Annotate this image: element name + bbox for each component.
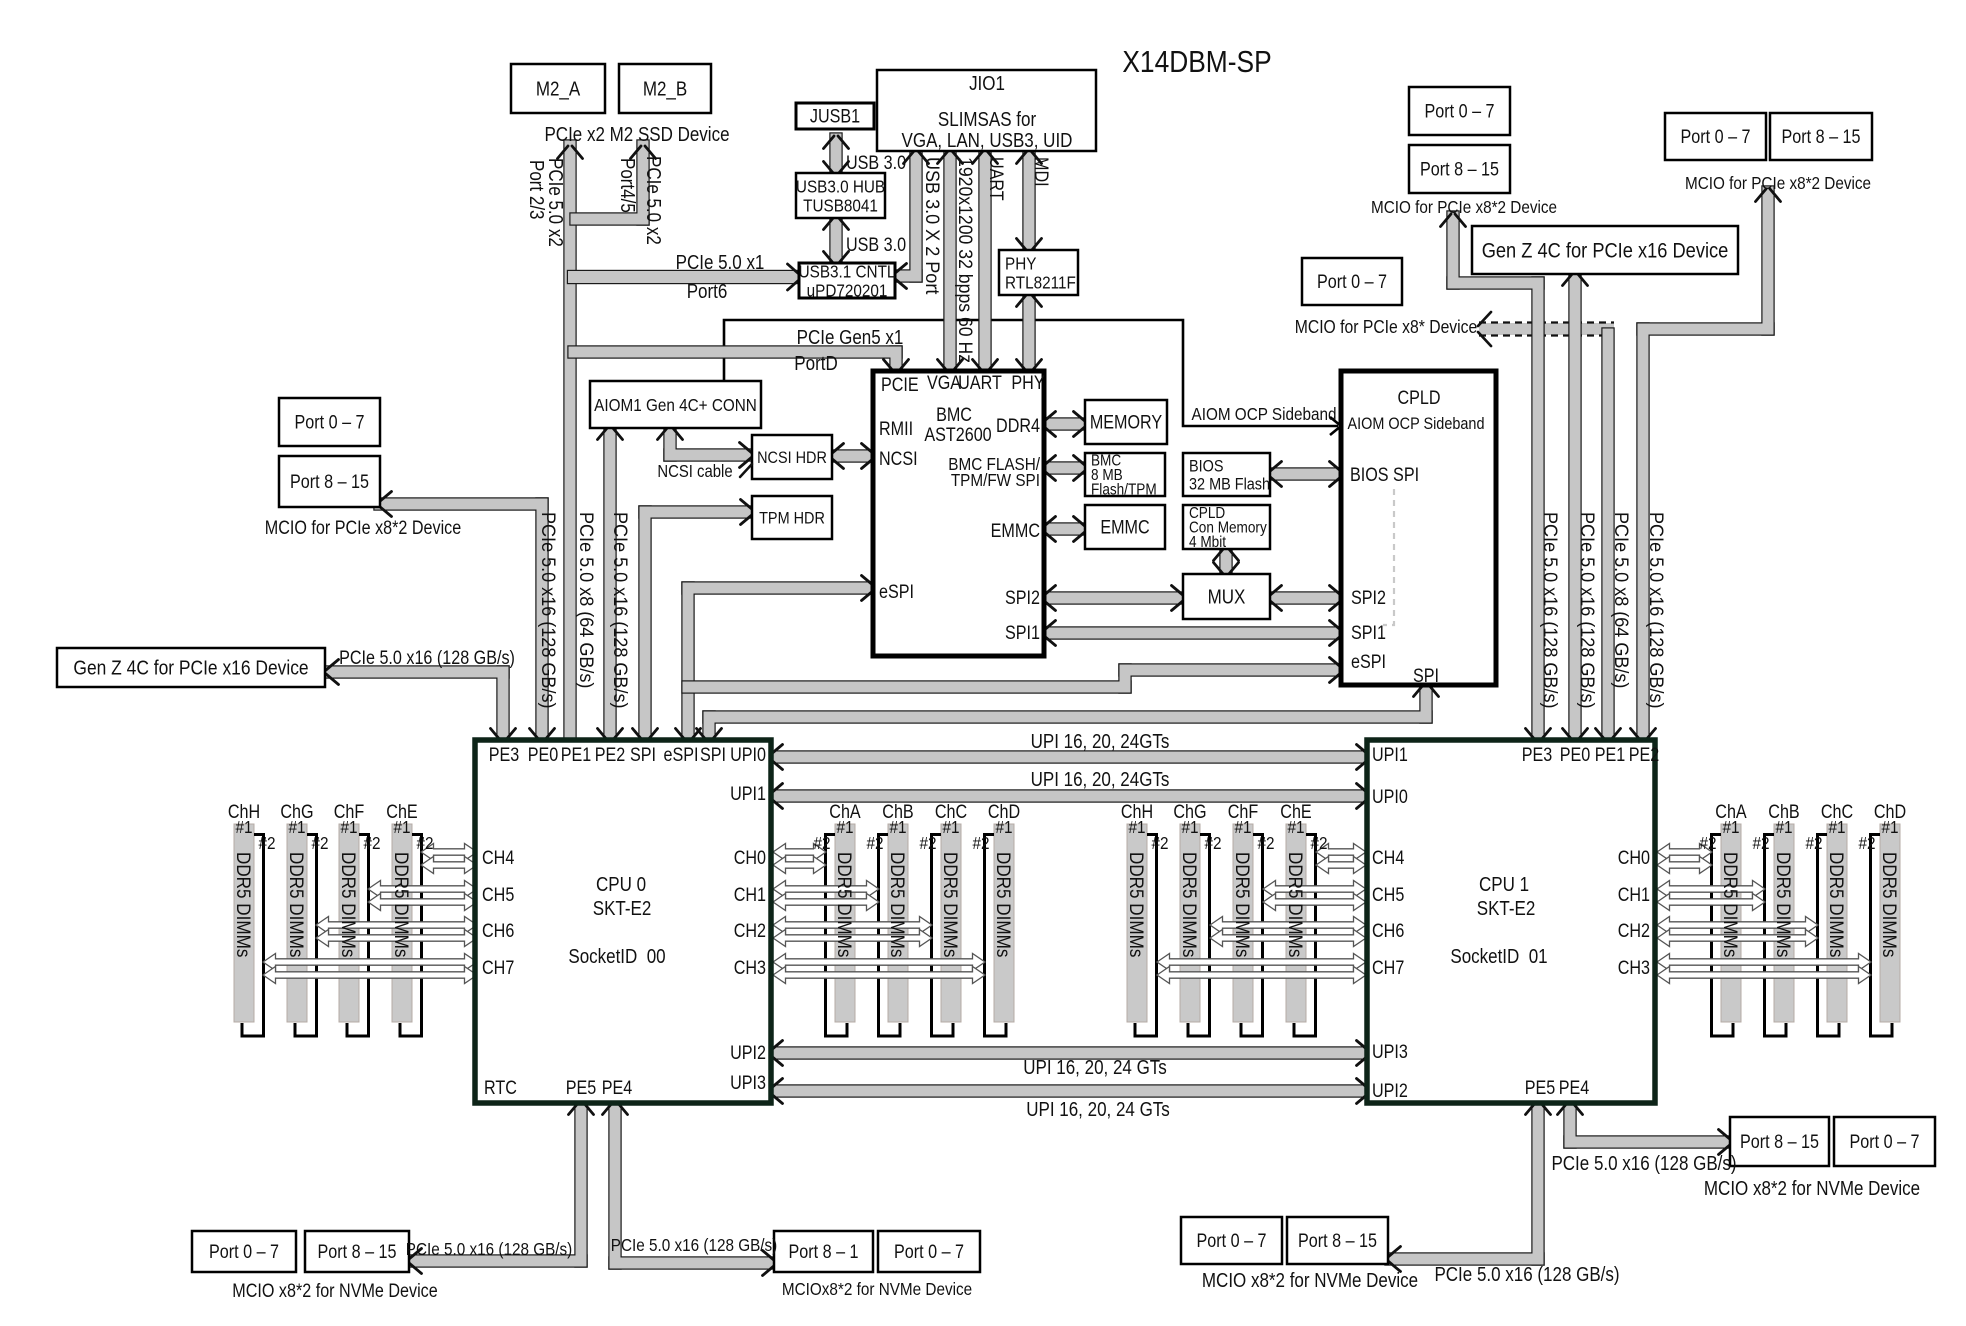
NCSI HDR [752, 435, 832, 479]
svg-text:UPI2: UPI2 [1372, 1080, 1408, 1102]
svg-text:#1: #1 [1128, 817, 1145, 837]
svg-text:Gen Z 4C for PCIe x16 Device: Gen Z 4C for PCIe x16 Device [1482, 239, 1729, 263]
USB3.0 HUB TUSB8041 [796, 173, 885, 218]
wire DDR4 wire BMC to MEMORY [1039, 417, 1089, 430]
wire USB 3.0 wire HUB to USB3.1 CNTL [829, 213, 842, 267]
svg-text:#2: #2 [258, 833, 275, 853]
svg-text:PCIe 5.0 x16 (128 GB/s): PCIe 5.0 x16 (128 GB/s) [1434, 1263, 1619, 1286]
svg-text:Port 8 – 15: Port 8 – 15 [290, 471, 369, 493]
svg-text:UPI 16, 20, 24GTs: UPI 16, 20, 24GTs [1031, 768, 1170, 791]
svg-text:Port 0 – 7: Port 0 – 7 [295, 411, 365, 433]
svg-text:PE5: PE5 [1525, 1077, 1556, 1099]
svg-text:PE1: PE1 [561, 744, 592, 766]
svg-text:USB 3.0: USB 3.0 [846, 152, 906, 174]
svg-text:CH1: CH1 [1618, 884, 1650, 906]
svg-text:Port 2/3: Port 2/3 [525, 160, 548, 219]
wire USB 3.0 X 2 Port wire JIO1 to CNTL [890, 147, 922, 282]
svg-text:X14DBM-SP: X14DBM-SP [1122, 45, 1271, 79]
wire SPI2 wire MUX to CPLD [1265, 591, 1345, 604]
svg-text:VGA, LAN, USB3, UID: VGA, LAN, USB3, UID [902, 129, 1073, 152]
svg-text:#2: #2 [363, 833, 380, 853]
wire UPI bus y=757 [766, 750, 1372, 763]
svg-text:MDI: MDI [1031, 157, 1053, 187]
Port 0-7 bottom center [878, 1231, 980, 1272]
svg-text:Port 0 – 7: Port 0 – 7 [1317, 271, 1387, 293]
svg-text:DDR5 DIMMs: DDR5 DIMMs [233, 852, 254, 957]
DIMM ChA CPU0 [826, 824, 856, 1036]
svg-text:Port 0 – 7: Port 0 – 7 [1850, 1131, 1920, 1153]
svg-text:Port 8 – 1: Port 8 – 1 [789, 1241, 859, 1263]
svg-text:PCIe 5.0 x16 (128 GB/s): PCIe 5.0 x16 (128 GB/s) [1646, 512, 1668, 708]
svg-text:#1: #1 [889, 817, 906, 837]
svg-text:SLIMSAS for: SLIMSAS for [938, 108, 1036, 131]
Port 0-7 mid right [1302, 258, 1402, 305]
CPU0 CH4 bus to ChE [421, 844, 477, 861]
svg-text:#2: #2 [1699, 833, 1716, 853]
svg-text:#2: #2 [1752, 833, 1769, 853]
Port 8-15 bottom right 1 [1730, 1117, 1829, 1166]
svg-text:#2: #2 [1257, 833, 1274, 853]
BMC 8MB Flash/TPM [1085, 453, 1165, 499]
wire BIOS SPI wire BIOS flash to CPLD [1265, 467, 1345, 480]
wire UPI bus y=796 [766, 789, 1372, 802]
wire EMMC wire [1039, 522, 1089, 535]
wire CPU1 PE3 wire to MCIO x8*2 [1446, 210, 1544, 746]
DIMM ChB CPU0 [879, 824, 909, 1036]
svg-text:PCIe 5.0 x8 (64 GB/s): PCIe 5.0 x8 (64 GB/s) [576, 512, 598, 688]
CPU1 CH5 bus to ChF [1263, 881, 1366, 898]
svg-text:Port6: Port6 [687, 280, 728, 303]
svg-text:CPU 0: CPU 0 [596, 873, 646, 896]
connector JIO1 [877, 70, 1096, 151]
svg-text:UPI0: UPI0 [1372, 786, 1408, 808]
CPU1 CH0 bus to ChA [1657, 844, 1712, 861]
svg-text:eSPI: eSPI [879, 581, 914, 603]
svg-text:PE1: PE1 [1595, 744, 1626, 766]
DIMM ChH CPU0 [234, 824, 264, 1036]
svg-text:#1: #1 [1234, 817, 1251, 837]
svg-text:AIOM OCP Sideband: AIOM OCP Sideband [1191, 404, 1336, 424]
svg-text:DDR4: DDR4 [996, 415, 1040, 437]
DIMM ChC CPU0 [932, 824, 962, 1036]
svg-text:UPI1: UPI1 [730, 783, 766, 805]
wire PCIe Gen5 x1 PortD to BMC PCIE [567, 345, 902, 375]
svg-text:SPI2: SPI2 [1351, 587, 1386, 609]
svg-text:BMC: BMC [936, 404, 972, 426]
svg-text:#1: #1 [1722, 817, 1739, 837]
svg-text:CH3: CH3 [1618, 957, 1650, 979]
Port 8-15 bottom right 2 [1287, 1217, 1388, 1264]
wire CPU1 PE5 wire to MCIO NVMe [1384, 1096, 1544, 1265]
svg-text:UPI0: UPI0 [730, 744, 766, 766]
svg-text:JIO1: JIO1 [969, 72, 1005, 95]
svg-text:Port 8 – 15: Port 8 – 15 [1740, 1131, 1819, 1153]
Port 0-7 bottom left [192, 1231, 296, 1272]
svg-text:CH6: CH6 [1372, 920, 1404, 942]
wire AIOM OCP Sideband (AIOM1 to CPLD) [724, 320, 1338, 426]
wire SPI2 wire BMC to MUX [1039, 591, 1187, 604]
svg-text:AIOM OCP Sideband: AIOM OCP Sideband [1348, 415, 1485, 433]
svg-text:PE0: PE0 [1560, 744, 1591, 766]
svg-text:#1: #1 [1881, 817, 1898, 837]
svg-text:DDR5 DIMMs: DDR5 DIMMs [1179, 852, 1200, 957]
wire CPU1 PE0 wire to Gen Z 4C right [1568, 269, 1581, 746]
DIMM slot labels [228, 801, 1906, 958]
BMC AST2600 [873, 371, 1044, 656]
CPU0 CH3 bus to ChD [773, 954, 985, 971]
svg-text:DDR5 DIMMs: DDR5 DIMMs [1879, 852, 1900, 957]
svg-text:TPM/FW SPI: TPM/FW SPI [951, 470, 1040, 490]
svg-text:PCIe Gen5 x1: PCIe Gen5 x1 [797, 326, 904, 349]
svg-text:SPI: SPI [700, 744, 726, 766]
svg-text:SocketID 01: SocketID 01 [1450, 945, 1547, 968]
svg-text:UART: UART [958, 372, 1002, 394]
Port 0-7 bottom right 2 [1181, 1217, 1282, 1264]
svg-text:CH0: CH0 [734, 847, 766, 869]
svg-text:#2: #2 [416, 833, 433, 853]
svg-text:#2: #2 [813, 833, 830, 853]
svg-text:PCIe 5.0 x16 (128 GB/s): PCIe 5.0 x16 (128 GB/s) [1577, 512, 1599, 708]
wire PCIe 5.0 x1 Port6 to USB3.1 CNTL [567, 270, 804, 284]
svg-text:SPI: SPI [630, 744, 656, 766]
svg-text:4 Mbit: 4 Mbit [1189, 534, 1227, 551]
svg-text:uPD720201: uPD720201 [807, 280, 888, 300]
wire CPU1 PE2 wire to MCIO x8*2 right [1636, 185, 1774, 746]
svg-text:CPU 1: CPU 1 [1479, 873, 1529, 896]
MEMORY [1085, 400, 1167, 444]
connector JUSB1 [796, 103, 874, 129]
wire eSPI wire CPU0 to BMC [681, 581, 877, 746]
svg-text:M2_A: M2_A [536, 77, 581, 101]
wire USB 3.0 wire JUSB1 to HUB [829, 132, 842, 177]
DIMM ChF CPU0 [339, 824, 369, 1036]
svg-text:#1: #1 [1287, 817, 1304, 837]
svg-text:PCIe x2 M2 SSD Device: PCIe x2 M2 SSD Device [544, 123, 729, 146]
svg-text:eSPI: eSPI [1351, 651, 1386, 673]
Port 0-7 MCIO left [279, 398, 380, 446]
wire SPI wire CPU0 to TPM HDR [638, 505, 756, 746]
CPU1 CH7 bus to ChH [1157, 954, 1366, 971]
svg-text:UPI 16, 20, 24 GTs: UPI 16, 20, 24 GTs [1023, 1056, 1167, 1079]
svg-text:CPLD: CPLD [1397, 387, 1440, 409]
svg-text:#1: #1 [942, 817, 959, 837]
svg-text:MCIO for PCIe x8*2 Device: MCIO for PCIe x8*2 Device [1371, 197, 1557, 217]
svg-text:PCIE: PCIE [881, 374, 919, 396]
svg-text:PE0: PE0 [528, 744, 559, 766]
svg-text:BIOS SPI: BIOS SPI [1350, 464, 1419, 486]
svg-text:CH6: CH6 [482, 920, 514, 942]
wire PCIe 5.0 x2 Port4/5 M2_B branch [569, 139, 649, 225]
CPU0 CH1 bus to ChB [773, 881, 879, 898]
dashed line BIOS SPI to SPI1 inside CPLD [1383, 489, 1394, 625]
svg-text:Port 0 – 7: Port 0 – 7 [894, 1241, 964, 1263]
svg-text:1920x1200 32 bpps 60 Hz: 1920x1200 32 bpps 60 Hz [955, 157, 977, 363]
svg-text:PCIe 5.0 x8 (64 GB/s): PCIe 5.0 x8 (64 GB/s) [1611, 512, 1633, 688]
svg-text:SKT-E2: SKT-E2 [593, 897, 652, 920]
svg-text:CH2: CH2 [1618, 920, 1650, 942]
Port 8-15 top right 2 [1770, 113, 1872, 160]
wire eSPI wire CPLD to CPU0 [681, 663, 1345, 693]
CPU1 CH6 bus to ChG [1210, 917, 1366, 934]
Port 0-7 top right 2 [1665, 113, 1766, 160]
svg-text:#2: #2 [1151, 833, 1168, 853]
CPU1 CH2 bus to ChC [1657, 917, 1818, 934]
wire MCIO for PCIe x8* Device (dashed) [1479, 323, 1614, 335]
svg-text:PHY: PHY [1005, 253, 1036, 273]
svg-text:DDR5 DIMMs: DDR5 DIMMs [286, 852, 307, 957]
svg-text:DDR5 DIMMs: DDR5 DIMMs [1285, 852, 1306, 957]
svg-text:#1: #1 [836, 817, 853, 837]
CPU0 CH7 bus to ChH [263, 954, 477, 971]
Gen Z 4C for PCIe x16 Device left [57, 648, 325, 687]
DIMM ChG CPU1 [1180, 824, 1210, 1036]
svg-text:NCSI HDR: NCSI HDR [757, 449, 827, 467]
svg-text:Port 0 – 7: Port 0 – 7 [1681, 126, 1751, 148]
svg-text:MCIOx8*2 for NVMe Device: MCIOx8*2 for NVMe Device [782, 1279, 972, 1299]
svg-text:#1: #1 [393, 817, 410, 837]
wire UPI bus y=1091 [766, 1084, 1372, 1097]
CPU1 CH3 bus to ChD [1657, 954, 1871, 971]
svg-text:UPI3: UPI3 [1372, 1041, 1408, 1063]
DIMM ChD CPU1 [1871, 824, 1901, 1036]
svg-text:#1: #1 [340, 817, 357, 837]
svg-text:DDR5 DIMMs: DDR5 DIMMs [1773, 852, 1794, 957]
svg-text:PCIe 5.0 x16 (128 GB/s): PCIe 5.0 x16 (128 GB/s) [339, 647, 515, 669]
svg-text:CH5: CH5 [482, 884, 514, 906]
wire CPU1 PE1 wire [1601, 327, 1614, 746]
svg-text:#2: #2 [1805, 833, 1822, 853]
svg-text:#1: #1 [1775, 817, 1792, 837]
svg-text:CH7: CH7 [482, 957, 514, 979]
wire PE0 wire to MCIO Port 8-15 [373, 497, 548, 746]
svg-text:EMMC: EMMC [1100, 516, 1150, 538]
wire UPI bus y=1053 [766, 1046, 1372, 1059]
DIMM ChH CPU1 [1127, 824, 1157, 1036]
svg-text:MCIO for PCIe x8*2 Device: MCIO for PCIe x8*2 Device [265, 517, 462, 539]
svg-text:Gen Z 4C for PCIe x16 Device: Gen Z 4C for PCIe x16 Device [73, 657, 308, 680]
svg-text:SPI2: SPI2 [1005, 587, 1040, 609]
svg-text:#2: #2 [972, 833, 989, 853]
svg-text:TPM HDR: TPM HDR [759, 509, 825, 527]
AIOM1 Gen 4C+ CONN [590, 381, 761, 428]
svg-text:CH7: CH7 [1372, 957, 1404, 979]
svg-text:UPI2: UPI2 [730, 1042, 766, 1064]
USB3.1 CNTL uPD720201 [799, 261, 896, 300]
svg-text:MCIO for PCIe x8*2 Device: MCIO for PCIe x8*2 Device [1685, 173, 1871, 193]
svg-text:Port 8 – 15: Port 8 – 15 [1782, 126, 1861, 148]
CPLD Con Memory 4 Mbit [1183, 505, 1270, 551]
svg-text:32 MB Flash: 32 MB Flash [1189, 475, 1270, 493]
BIOS 32 MB Flash [1183, 453, 1270, 496]
svg-text:BIOS: BIOS [1189, 457, 1224, 475]
svg-text:Port4/5: Port4/5 [616, 158, 639, 213]
svg-text:TUSB8041: TUSB8041 [803, 195, 878, 215]
CPU1 CH1 bus to ChB [1657, 881, 1765, 898]
wire CPU0 PE5 wire to MCIO NVMe left [405, 1096, 587, 1267]
svg-text:NCSI: NCSI [879, 448, 918, 470]
svg-text:SKT-E2: SKT-E2 [1477, 897, 1536, 920]
svg-text:CH5: CH5 [1372, 884, 1404, 906]
Gen Z 4C for PCIe x16 Device right [1472, 226, 1738, 274]
svg-text:PCIe 5.0 x16 (128 GB/s): PCIe 5.0 x16 (128 GB/s) [610, 512, 632, 708]
EMMC [1085, 505, 1165, 549]
svg-text:DDR5 DIMMs: DDR5 DIMMs [1826, 852, 1847, 957]
svg-text:VGA: VGA [927, 372, 961, 394]
svg-text:eSPI: eSPI [663, 744, 698, 766]
CPU0 CH6 bus to ChG [316, 917, 477, 934]
svg-text:DDR5 DIMMs: DDR5 DIMMs [1720, 852, 1741, 957]
svg-text:NCSI cable: NCSI cable [657, 462, 732, 481]
Port 0-7 bottom right 1 [1834, 1117, 1935, 1166]
svg-text:Port 0 – 7: Port 0 – 7 [1197, 1230, 1267, 1252]
Port 8-15 top right 1 [1409, 145, 1510, 193]
svg-text:USB 3.0 X 2 Port: USB 3.0 X 2 Port [922, 157, 944, 295]
svg-text:PE5: PE5 [566, 1077, 597, 1099]
svg-text:DDR5 DIMMs: DDR5 DIMMs [338, 852, 359, 957]
svg-text:DDR5 DIMMs: DDR5 DIMMs [1232, 852, 1253, 957]
svg-text:MCIO x8*2 for NVMe Device: MCIO x8*2 for NVMe Device [1704, 1177, 1920, 1200]
svg-text:UPI3: UPI3 [730, 1072, 766, 1094]
wire SPI1 wire BMC to CPLD [1039, 626, 1345, 639]
svg-text:Port 8 – 15: Port 8 – 15 [318, 1241, 397, 1263]
wire wire CPLD Con Memory to MUX [1219, 544, 1232, 578]
svg-text:PCIe 5.0 x16 (128 GB/s): PCIe 5.0 x16 (128 GB/s) [611, 1235, 778, 1255]
svg-text:DDR5 DIMMs: DDR5 DIMMs [993, 852, 1014, 957]
svg-text:EMMC: EMMC [991, 520, 1041, 542]
svg-text:PCIe 5.0 x16 (128 GB/s): PCIe 5.0 x16 (128 GB/s) [1551, 1152, 1736, 1175]
svg-text:DDR5 DIMMs: DDR5 DIMMs [1126, 852, 1147, 957]
svg-text:DDR5 DIMMs: DDR5 DIMMs [391, 852, 412, 957]
svg-text:RTC: RTC [484, 1077, 517, 1099]
wire SPI wire CPLD to CPU0 [702, 680, 1432, 746]
svg-text:RTL8211F: RTL8211F [1005, 272, 1076, 292]
svg-text:Port 0 – 7: Port 0 – 7 [1425, 100, 1495, 122]
wire VGA wire JIO1 to BMC [943, 147, 956, 375]
svg-text:PHY: PHY [1011, 372, 1044, 394]
svg-text:#2: #2 [311, 833, 328, 853]
svg-text:JUSB1: JUSB1 [810, 105, 860, 127]
svg-text:CH1: CH1 [734, 884, 766, 906]
svg-text:#1: #1 [1181, 817, 1198, 837]
Port 0-7 top right 1 [1409, 87, 1510, 135]
svg-text:SPI: SPI [1413, 665, 1439, 687]
wire CPU0 PE4 wire to MCIO NVMe center [608, 1096, 778, 1269]
Port 8-15 bottom left [305, 1231, 409, 1272]
DIMM ChC CPU1 [1818, 824, 1848, 1036]
svg-text:PCIe 5.0 x16 (128 GB/s): PCIe 5.0 x16 (128 GB/s) [1540, 512, 1562, 708]
wire NCSI cable wire AIOM1 to NCSI HDR [663, 423, 755, 461]
svg-text:MUX: MUX [1208, 585, 1246, 608]
DIMM ChB CPU1 [1765, 824, 1795, 1036]
Port 8-1 bottom center [774, 1231, 873, 1272]
svg-text:PE3: PE3 [489, 744, 520, 766]
svg-text:#2: #2 [1858, 833, 1875, 853]
svg-text:PCIe 5.0 x16 (128 GB/s): PCIe 5.0 x16 (128 GB/s) [538, 512, 560, 708]
svg-text:MCIO x8*2 for NVMe Device: MCIO x8*2 for NVMe Device [1202, 1269, 1418, 1292]
svg-text:PCIe 5.0 x16 (128 GB/s): PCIe 5.0 x16 (128 GB/s) [406, 1239, 573, 1259]
svg-text:CH4: CH4 [1372, 847, 1404, 869]
svg-text:RMII: RMII [879, 418, 913, 440]
DIMM ChF CPU1 [1233, 824, 1263, 1036]
svg-text:UART: UART [986, 157, 1008, 201]
svg-text:PCIe 5.0 x2: PCIe 5.0 x2 [642, 156, 665, 245]
svg-text:UPI1: UPI1 [1372, 744, 1408, 766]
wire PE2 wire to AIOM1 CONN [603, 423, 616, 746]
PHY RTL8211F [999, 250, 1078, 295]
svg-text:#1: #1 [995, 817, 1012, 837]
svg-text:PE2: PE2 [1629, 744, 1660, 766]
svg-text:SPI1: SPI1 [1005, 622, 1040, 644]
svg-text:UPI 16, 20, 24 GTs: UPI 16, 20, 24 GTs [1026, 1098, 1170, 1121]
wire UART wire JIO1 to BMC [978, 147, 991, 375]
svg-text:CH0: CH0 [1618, 847, 1650, 869]
CPU0 CH2 bus to ChC [773, 917, 932, 934]
svg-text:PE3: PE3 [1522, 744, 1553, 766]
wire PE3 wire to Gen Z 4C left [320, 665, 509, 746]
wire PHY wire to BMC [1022, 290, 1035, 375]
svg-text:USB 3.0: USB 3.0 [846, 234, 906, 256]
svg-text:PCIe 5.0 x1: PCIe 5.0 x1 [676, 251, 765, 274]
CPU1 CH4 bus to ChE [1316, 844, 1366, 861]
TPM HDR [752, 496, 832, 539]
svg-text:DDR5 DIMMs: DDR5 DIMMs [887, 852, 908, 957]
svg-text:#2: #2 [919, 833, 936, 853]
svg-text:SocketID 00: SocketID 00 [568, 945, 665, 968]
CPU 0 SKT-E2 [475, 740, 771, 1103]
svg-text:AST2600: AST2600 [924, 424, 991, 446]
MUX [1183, 574, 1270, 619]
svg-text:#2: #2 [866, 833, 883, 853]
svg-text:CH2: CH2 [734, 920, 766, 942]
wire wire NCSI HDR to BMC NCSI [827, 449, 877, 462]
svg-text:#1: #1 [288, 817, 305, 837]
svg-text:PE4: PE4 [1559, 1077, 1590, 1099]
svg-text:MCIO for PCIe x8* Device: MCIO for PCIe x8* Device [1295, 316, 1478, 338]
svg-text:CH3: CH3 [734, 957, 766, 979]
DIMM ChG CPU0 [287, 824, 317, 1036]
CPLD [1341, 371, 1496, 685]
svg-text:CH4: CH4 [482, 847, 514, 869]
connector M2_A [511, 64, 605, 113]
DIMM ChE CPU1 [1286, 824, 1316, 1036]
svg-text:UPI 16, 20, 24GTs: UPI 16, 20, 24GTs [1031, 730, 1170, 753]
svg-text:PE2: PE2 [595, 744, 626, 766]
wire CPU1 PE4 wire to MCIO NVMe right [1563, 1096, 1734, 1148]
wire BMC FLASH wire [1039, 461, 1089, 474]
svg-text:#1: #1 [235, 817, 252, 837]
CPU 1 SKT-E2 [1367, 740, 1655, 1103]
svg-text:Flash/TPM: Flash/TPM [1091, 482, 1157, 499]
wire PCIe 5.0 x2 Port2/3 trunk M2_A to CPU0 PE1 [563, 139, 576, 746]
svg-text:Port 8 – 15: Port 8 – 15 [1298, 1230, 1377, 1252]
wire MDI wire JIO1 to PHY [1022, 147, 1035, 254]
svg-text:Port 0 – 7: Port 0 – 7 [209, 1241, 279, 1263]
CPU0 CH5 bus to ChF [368, 881, 477, 898]
svg-text:PortD: PortD [794, 352, 837, 375]
DIMM ChA CPU1 [1712, 824, 1742, 1036]
connector M2_B [619, 64, 711, 113]
svg-text:PE4: PE4 [602, 1077, 633, 1099]
svg-text:M2_B: M2_B [643, 77, 687, 101]
svg-text:#2: #2 [1310, 833, 1327, 853]
svg-text:AIOM1 Gen 4C+ CONN: AIOM1 Gen 4C+ CONN [594, 395, 757, 415]
DIMM ChE CPU0 [392, 824, 422, 1036]
Port 8-15 MCIO left [279, 456, 380, 507]
svg-text:Port 8 – 15: Port 8 – 15 [1420, 158, 1499, 180]
CPU0 CH0 bus to ChA [773, 844, 826, 861]
svg-text:USB3.1 CNTL: USB3.1 CNTL [799, 261, 896, 281]
svg-text:MEMORY: MEMORY [1090, 411, 1163, 433]
